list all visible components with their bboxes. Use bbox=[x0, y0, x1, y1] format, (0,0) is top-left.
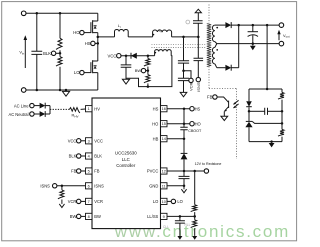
pin 10 LO box bbox=[161, 198, 168, 204]
node BW tap bbox=[147, 69, 150, 72]
svg-text:10: 10 bbox=[162, 200, 166, 204]
wire HS pin row bbox=[167, 108, 190, 110]
terminal AC Line bbox=[30, 103, 34, 107]
node HB bbox=[183, 137, 186, 140]
terminal VCC (aux) bbox=[117, 54, 121, 58]
svg-text:FB: FB bbox=[94, 169, 100, 174]
svg-text:HB: HB bbox=[153, 136, 159, 141]
capacitor comp bbox=[265, 108, 268, 115]
wire LLSS pin row bbox=[167, 215, 195, 217]
svg-text:VCC: VCC bbox=[94, 138, 103, 143]
pin 9 LL/SS box bbox=[161, 213, 168, 219]
node top rail / BLK divider bbox=[59, 12, 62, 15]
svg-text:RHV: RHV bbox=[72, 113, 79, 119]
pin 5 FB box bbox=[86, 168, 93, 174]
wire Cr bottom bbox=[183, 81, 185, 93]
terminal Vout- bbox=[279, 41, 284, 46]
svg-text:ISNS: ISNS bbox=[40, 183, 50, 188]
capacitor Cout bbox=[252, 25, 254, 32]
capacitor Cr2 bbox=[178, 78, 189, 80]
wire aux return branch bbox=[126, 78, 148, 86]
node comp left bbox=[248, 110, 251, 113]
pin 3 VCC box bbox=[86, 138, 93, 144]
terminal BW (pin) bbox=[77, 214, 81, 218]
terminal Vout+ bbox=[279, 23, 284, 28]
terminal BLK bbox=[51, 51, 55, 55]
diode AC Line bbox=[40, 103, 46, 109]
node divider mid bbox=[281, 122, 284, 125]
ground Cr bbox=[180, 92, 187, 96]
svg-text:FB: FB bbox=[207, 95, 213, 100]
wire divider bbox=[281, 111, 283, 129]
wire BLK pin stub bbox=[81, 155, 86, 157]
ground GND pin (arrow) bbox=[183, 186, 185, 189]
wire AC Neutral diode bbox=[34, 113, 40, 115]
capacitor CLL bbox=[179, 216, 181, 220]
wire HB pin row bbox=[167, 138, 184, 140]
terminal LO (bridge) bbox=[80, 70, 84, 74]
terminal HO (pin) bbox=[190, 122, 194, 126]
wire rectifier top bbox=[215, 24, 226, 26]
coupling dotted lines bbox=[152, 43, 207, 45]
resistor ISNS bbox=[61, 186, 63, 190]
wire AC Line diode bbox=[34, 105, 40, 107]
wire LO gate bbox=[84, 72, 91, 74]
Vout annotation arrow bbox=[278, 33, 280, 40]
capacitor CBOOT bbox=[180, 127, 187, 130]
wire HO pin row bbox=[167, 123, 190, 125]
ground CLL (arrow) bbox=[177, 236, 182, 240]
node GND bbox=[183, 185, 186, 188]
wire VCR tap bbox=[184, 71, 192, 78]
wire boot column mid bbox=[183, 130, 185, 154]
wire boot column upper bbox=[183, 109, 185, 128]
wire QH source to HS bbox=[97, 33, 99, 61]
wire ISNS row bbox=[57, 185, 86, 187]
svg-text:Lr: Lr bbox=[118, 23, 121, 29]
terminal HS (bridge) bbox=[91, 41, 95, 45]
wire opto LED branch bbox=[248, 89, 250, 101]
wire drain QH bbox=[97, 13, 99, 21]
svg-text:VCC: VCC bbox=[108, 53, 117, 58]
node Cr top bbox=[182, 36, 185, 39]
wire top rail bbox=[26, 12, 98, 14]
capacitor PVCC bbox=[183, 171, 185, 176]
capacitor ISNS bbox=[194, 58, 204, 60]
svg-text:LL/SS: LL/SS bbox=[147, 214, 158, 219]
node FB gnd bbox=[270, 140, 273, 143]
terminal BLK (pin) bbox=[77, 154, 81, 158]
transistor QH (high-side MOSFET) bbox=[93, 21, 98, 33]
diode opto LED bbox=[246, 101, 252, 106]
svg-text:5: 5 bbox=[88, 170, 90, 174]
wire Cr bbox=[183, 37, 185, 61]
svg-text:PVCC: PVCC bbox=[147, 169, 158, 174]
svg-text:VCC: VCC bbox=[68, 138, 77, 143]
polarity dot aux winding bbox=[154, 52, 156, 54]
wire BLK tap bbox=[59, 50, 61, 56]
polarity dot sec lower bbox=[216, 49, 218, 51]
svg-text:ISNS: ISNS bbox=[196, 82, 201, 92]
pin 12 PVCC box bbox=[161, 168, 168, 174]
wire Y-cap to node bbox=[197, 23, 199, 37]
inductor Lr bbox=[115, 29, 129, 36]
svg-text:9: 9 bbox=[163, 215, 165, 219]
ground primary bbox=[65, 90, 67, 91]
wire Lm to Cr bbox=[172, 36, 199, 38]
ground VCC cap bbox=[122, 79, 129, 84]
terminal FB (pin) bbox=[77, 169, 81, 173]
wire VCC row bbox=[121, 55, 148, 57]
svg-text:GND: GND bbox=[149, 183, 158, 188]
light arrows (optocoupler) bbox=[234, 100, 239, 104]
node HO bbox=[183, 122, 186, 125]
earth Y-cap bbox=[197, 13, 199, 21]
node tank tap bbox=[97, 36, 100, 39]
terminal ISNS (tank) bbox=[196, 77, 200, 81]
node FB sense join bbox=[266, 88, 269, 91]
pin 6 ISNS box bbox=[86, 183, 93, 189]
diode AC Neutral bbox=[40, 111, 46, 117]
terminal FB (opto) bbox=[213, 95, 217, 99]
pin 15 HO box bbox=[161, 121, 168, 127]
resistor BW lower bbox=[144, 75, 150, 83]
node VCC cap bbox=[125, 54, 128, 57]
svg-text:ISNS: ISNS bbox=[94, 183, 104, 188]
node HS bbox=[183, 107, 186, 110]
wire QL source bbox=[97, 73, 99, 90]
polarity dot Lm bbox=[153, 34, 155, 36]
svg-text:HS: HS bbox=[195, 106, 201, 111]
svg-text:11: 11 bbox=[162, 184, 166, 188]
resistor FB upper bbox=[281, 89, 283, 92]
svg-text:HO: HO bbox=[195, 121, 201, 126]
resistor RHV bbox=[69, 108, 79, 113]
svg-text:6: 6 bbox=[88, 184, 90, 188]
node VCR tap bbox=[182, 70, 185, 73]
ground RLL (arrow) bbox=[192, 236, 197, 240]
terminal VCR (pin) bbox=[77, 199, 81, 203]
svg-text:8: 8 bbox=[88, 215, 90, 219]
wire FB sense drop bbox=[266, 25, 268, 43]
wire AC neutral join bbox=[45, 113, 50, 115]
terminal AC Neutral bbox=[30, 112, 34, 116]
terminal HS (pin) bbox=[190, 107, 194, 111]
svg-text:LO: LO bbox=[153, 199, 158, 204]
svg-text:1: 1 bbox=[88, 107, 90, 111]
ground opto bbox=[221, 116, 228, 120]
inductor aux bias winding bbox=[148, 55, 155, 57]
Vin annotation arrow bbox=[24, 39, 26, 68]
ground ISNS (arrow) bbox=[59, 204, 64, 208]
wire LO pin stub bbox=[167, 200, 171, 202]
svg-text:VCR: VCR bbox=[94, 199, 103, 204]
terminal ISNS (pin) bbox=[53, 184, 57, 188]
node BLK tap bbox=[59, 52, 62, 55]
terminal 12V bbox=[204, 169, 208, 173]
node sense top bbox=[197, 36, 200, 39]
node bottom rail / ground bbox=[65, 89, 68, 92]
svg-text:FB: FB bbox=[71, 169, 77, 174]
terminal LO (pin) bbox=[171, 199, 175, 203]
resistor BW upper bbox=[144, 58, 150, 66]
node HS tap bbox=[97, 42, 100, 45]
pin 16 HS box bbox=[161, 106, 168, 112]
svg-text:UCC25630: UCC25630 bbox=[115, 151, 137, 156]
capacitor VCC bbox=[125, 56, 127, 65]
terminal VCC (pin) bbox=[77, 139, 81, 143]
svg-text:BLK: BLK bbox=[94, 154, 102, 159]
wire AC join vertical bbox=[49, 106, 51, 114]
svg-text:HS: HS bbox=[85, 41, 91, 46]
ground output bbox=[252, 44, 254, 46]
secondary winding lower bbox=[215, 44, 217, 48]
terminal BW (aux) bbox=[141, 68, 145, 72]
pin 1 HV box bbox=[86, 106, 93, 112]
svg-text:7: 7 bbox=[88, 200, 90, 204]
node FB sense top bbox=[266, 24, 269, 27]
wire center tap rail bbox=[217, 43, 279, 45]
wire aux winding return bbox=[148, 56, 172, 87]
svg-text:BW: BW bbox=[70, 214, 77, 219]
wire GND pin row bbox=[167, 185, 184, 187]
svg-text:3: 3 bbox=[88, 139, 90, 143]
svg-text:HS: HS bbox=[153, 106, 159, 111]
input terminal + (top left) bbox=[21, 11, 26, 16]
node LLSS res bbox=[193, 215, 196, 218]
wire bottom rail bbox=[24, 89, 98, 91]
wire dashed to RHV bbox=[50, 108, 69, 110]
wire D2 up to output bbox=[231, 67, 238, 69]
diode D1 (top rectifier) bbox=[225, 22, 231, 28]
annotation circle near Y-cap bbox=[186, 20, 190, 24]
svg-text:15: 15 bbox=[162, 122, 166, 126]
opto transistor bbox=[228, 101, 230, 108]
terminal VCR (tank) bbox=[189, 78, 193, 82]
wire PVCC to RLL bbox=[194, 171, 196, 205]
node comp right bbox=[281, 110, 284, 113]
wire D1 to output bbox=[231, 24, 279, 26]
IC U1 UCC25630 box bbox=[92, 98, 161, 229]
wire TL431 ref bbox=[252, 121, 282, 123]
capacitor Cin bbox=[36, 13, 38, 51]
capacitor Y bbox=[193, 21, 203, 24]
node bottom rail / divider bbox=[59, 89, 62, 92]
wire sense cap bbox=[197, 37, 199, 58]
resistor RLL upper bbox=[191, 205, 197, 212]
wire VCC pin stub bbox=[81, 140, 86, 142]
svg-text:12: 12 bbox=[162, 170, 166, 174]
node D joint bbox=[237, 24, 240, 27]
wire rectifier bottom bbox=[217, 67, 226, 69]
svg-text:LLC: LLC bbox=[122, 157, 130, 162]
svg-text:BLK: BLK bbox=[43, 51, 51, 56]
wire VCR pin stub bbox=[81, 200, 86, 202]
svg-text:BW: BW bbox=[135, 68, 142, 73]
diode VCC bbox=[131, 53, 137, 59]
wire PVCC cap to gnd bbox=[183, 179, 185, 186]
svg-text:LO: LO bbox=[177, 199, 182, 204]
resistor FB lower bbox=[278, 129, 284, 136]
node LLSS cap bbox=[179, 215, 182, 218]
svg-text:HV: HV bbox=[94, 106, 100, 111]
wire FB pin stub bbox=[81, 170, 86, 172]
svg-text:VCR: VCR bbox=[189, 82, 194, 91]
node PVCC aux bbox=[193, 170, 196, 173]
wire Lr to Lm bbox=[128, 36, 152, 38]
transistor QL (low-side MOSFET) bbox=[93, 61, 98, 73]
svg-text:Vin: Vin bbox=[19, 50, 24, 56]
node output cap bottom bbox=[252, 42, 255, 45]
secondary winding upper bbox=[212, 25, 214, 41]
svg-text:BLK: BLK bbox=[69, 154, 77, 159]
node ISNS bbox=[61, 185, 64, 188]
diode D2 (bottom rectifier) bbox=[225, 65, 231, 71]
resistor lower BLK divider bbox=[56, 57, 62, 66]
transformer core bbox=[207, 24, 211, 67]
node bottom rail / Cin bbox=[36, 89, 39, 92]
node aux bottom bbox=[147, 85, 150, 88]
polarity dot sec upper bbox=[216, 27, 218, 29]
pin 8 BW box bbox=[86, 213, 93, 219]
node output cap top bbox=[252, 24, 255, 27]
wire HS stub bbox=[95, 42, 98, 44]
svg-text:HO: HO bbox=[152, 121, 158, 126]
svg-text:CLL: CLL bbox=[163, 225, 169, 229]
node PVCC boot bbox=[183, 170, 186, 173]
wire BW stub bbox=[146, 70, 148, 72]
svg-text:12V to Redstone: 12V to Redstone bbox=[195, 162, 222, 166]
wire HO gate bbox=[84, 32, 91, 34]
svg-text:CBOOT: CBOOT bbox=[188, 129, 202, 133]
wire AC line join bbox=[45, 105, 50, 107]
shunt TL431 bbox=[248, 111, 250, 121]
node top rail / Cin bbox=[36, 12, 39, 15]
wire HS node to Lr bbox=[98, 36, 115, 38]
wire boot diode to PVCC bbox=[183, 159, 185, 171]
wire Cr mid bbox=[183, 63, 185, 78]
input terminal - (bottom left) bbox=[21, 88, 26, 93]
pin 7 VCR box bbox=[86, 198, 93, 204]
svg-text:BW: BW bbox=[94, 214, 101, 219]
svg-text:Lm: Lm bbox=[159, 28, 164, 34]
wire FB net top rail bbox=[249, 88, 282, 90]
svg-text:Controller: Controller bbox=[116, 163, 136, 168]
wire BW pin stub bbox=[81, 215, 86, 217]
ground FB net bbox=[271, 142, 273, 143]
inductor Lm (primary) bbox=[153, 30, 172, 37]
svg-text:Vout: Vout bbox=[283, 33, 290, 39]
pin 14 HB box bbox=[161, 136, 168, 142]
wire comp row bbox=[249, 110, 265, 112]
svg-text:AC Neutral: AC Neutral bbox=[8, 112, 28, 117]
svg-text:AC Line: AC Line bbox=[14, 103, 29, 108]
isolation barrier (dotted) bbox=[208, 5, 210, 24]
terminal HO bbox=[80, 30, 84, 34]
pin 4 BLK box bbox=[86, 153, 93, 159]
svg-text:VCR: VCR bbox=[68, 199, 77, 204]
svg-text:HO: HO bbox=[73, 30, 80, 35]
wire PVCC pin row bbox=[167, 170, 204, 172]
resistor upper BLK divider bbox=[59, 13, 61, 38]
wire FB net bottom rail bbox=[249, 141, 282, 143]
resistor RLL lower bbox=[194, 216, 196, 219]
svg-text:RLL: RLL bbox=[185, 223, 191, 227]
wire RHV to HV pin bbox=[81, 108, 86, 110]
wire LED to node bbox=[248, 107, 250, 111]
svg-text:LO: LO bbox=[74, 70, 80, 75]
diode boot bbox=[181, 153, 188, 159]
pin 11 GND box bbox=[161, 183, 168, 189]
svg-text:14: 14 bbox=[162, 137, 166, 141]
node aux top bbox=[147, 54, 150, 57]
wire FB to opto bbox=[217, 97, 228, 102]
svg-text:4: 4 bbox=[88, 155, 90, 159]
wire ISNS cap down bbox=[197, 61, 199, 78]
capacitor Cr1 bbox=[178, 61, 189, 63]
svg-text:16: 16 bbox=[162, 107, 166, 111]
